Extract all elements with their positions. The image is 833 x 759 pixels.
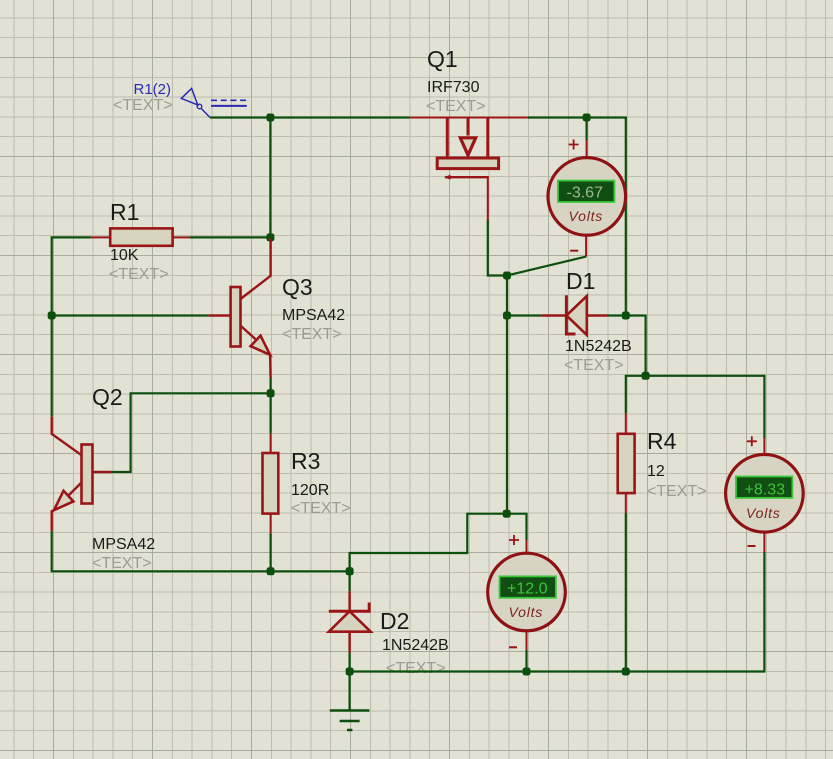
label Q1 xyxy=(427,46,458,72)
placeholder text probe xyxy=(113,97,173,114)
svg-text:+12.0: +12.0 xyxy=(507,581,548,598)
resistor R3 xyxy=(263,434,279,534)
svg-text:<TEXT>: <TEXT> xyxy=(109,266,169,283)
wire: R4 bottom to bottom rail xyxy=(625,513,627,672)
transistor Q2 (MPSA42 NPN, mirrored) xyxy=(52,417,111,531)
wire: D1 right connection xyxy=(608,314,626,316)
wire: D1 left connection xyxy=(507,314,541,316)
resistor R1 xyxy=(91,228,189,245)
voltmeter V2 (+12.0) xyxy=(488,535,566,650)
node A: top wire / vertical junction xyxy=(266,114,274,122)
wire: R1 right wire xyxy=(189,236,270,238)
svg-text:<TEXT>: <TEXT> xyxy=(92,555,152,572)
ground xyxy=(330,711,370,731)
svg-text:<TEXT>: <TEXT> xyxy=(282,326,342,343)
svg-text:MPSA42: MPSA42 xyxy=(282,307,345,324)
wire: Q2 emitter green part xyxy=(51,531,53,571)
wire: R3 top green part xyxy=(270,393,272,433)
wire: bottom rail xyxy=(350,670,766,672)
value MPSA42 Q2 xyxy=(92,536,155,553)
transistor Q1 (IRF730 MOSFET) xyxy=(410,118,528,221)
wire: R1 left wire and left rail xyxy=(52,237,91,416)
wire: R4 top connection xyxy=(625,375,627,413)
placeholder text Q3 xyxy=(282,326,342,343)
svg-text:<TEXT>: <TEXT> xyxy=(426,98,486,115)
label D1 xyxy=(566,268,595,294)
wire: V1 plus stub from top wire xyxy=(585,118,587,141)
node E: Q1 source / diagonal junction xyxy=(503,272,511,280)
placeholder text R4 xyxy=(647,483,707,500)
svg-text:D2: D2 xyxy=(380,608,409,634)
svg-text:1N5242B: 1N5242B xyxy=(565,338,632,355)
placeholder text D2 xyxy=(386,660,446,677)
wire: top net from probe to top-right corner xyxy=(210,116,627,118)
probe R1(2) xyxy=(181,88,246,117)
wire: ground stem xyxy=(349,672,351,710)
label Q2 xyxy=(92,384,123,410)
svg-text:Q3: Q3 xyxy=(282,274,313,300)
svg-text:<TEXT>: <TEXT> xyxy=(291,500,351,517)
diode D1 (1N5242B zener) xyxy=(541,295,608,335)
value 1N5242B D2 xyxy=(382,637,449,654)
svg-text:R3: R3 xyxy=(291,448,320,474)
svg-text:Volts: Volts xyxy=(569,208,604,224)
label R1(2) xyxy=(134,81,172,98)
wire: Q1 source vertical green part and corner to junction xyxy=(488,220,507,276)
wire: Q3 base net xyxy=(52,314,209,316)
node C: R1 right junction xyxy=(266,233,274,241)
value IRF730 xyxy=(427,79,480,96)
wire: D2 top green part xyxy=(349,571,351,591)
svg-text:R1: R1 xyxy=(110,199,139,225)
value 10K xyxy=(110,247,139,264)
wire: Q2 base net jog xyxy=(111,393,271,472)
node B: top wire / V1 plus junction xyxy=(583,114,591,122)
wire: middle vertical net x=507 xyxy=(506,276,508,514)
svg-text:MPSA42: MPSA42 xyxy=(92,536,155,553)
wire: horizontal rail to voltmeter V3 xyxy=(626,375,765,377)
wire: jog from D1 junction right and down xyxy=(626,316,646,376)
node H: rail junction above R4 xyxy=(642,372,650,380)
svg-text:Volts: Volts xyxy=(746,505,781,521)
wire: diagonal to V1 minus xyxy=(507,257,586,276)
svg-text:+8.33: +8.33 xyxy=(745,482,786,499)
placeholder text Q1 xyxy=(426,98,486,115)
node K: D2 top junction xyxy=(346,567,354,575)
voltmeter V1 (-3.67) xyxy=(548,140,626,257)
value 1N5242B D1 xyxy=(565,338,632,355)
placeholder text R1 xyxy=(109,266,169,283)
svg-text:IRF730: IRF730 xyxy=(427,79,480,96)
wire: D2 bottom green part xyxy=(349,653,351,672)
svg-text:Q1: Q1 xyxy=(427,46,458,72)
wire: right vertical down to D1 junction xyxy=(625,117,627,316)
wire: V2 minus lead green part xyxy=(525,650,527,672)
transistor Q3 (MPSA42 NPN) xyxy=(208,238,270,378)
node N: V2 minus junction xyxy=(523,668,531,676)
svg-text:12: 12 xyxy=(647,463,665,480)
node J: V2 plus junction xyxy=(503,510,511,518)
wire: Q3 emitter to junction green part xyxy=(270,377,272,394)
wire: bottom-left rail xyxy=(51,570,350,572)
svg-text:1N5242B: 1N5242B xyxy=(382,637,449,654)
placeholder text D1 xyxy=(564,357,624,374)
label D2 xyxy=(380,608,409,634)
svg-text:<TEXT>: <TEXT> xyxy=(647,483,707,500)
svg-text:Q2: Q2 xyxy=(92,384,123,410)
label R4 xyxy=(647,428,677,454)
node G: D1 right junction xyxy=(622,312,630,320)
node L: R3 bottom junction xyxy=(267,567,275,575)
svg-text:<TEXT>: <TEXT> xyxy=(113,97,173,114)
svg-text:<TEXT>: <TEXT> xyxy=(564,357,624,374)
svg-text:D1: D1 xyxy=(566,268,595,294)
placeholder text R3 xyxy=(291,500,351,517)
label R1 xyxy=(110,199,139,225)
svg-text:R1(2): R1(2) xyxy=(134,81,172,98)
svg-text:-3.67: -3.67 xyxy=(567,185,604,202)
svg-text:R4: R4 xyxy=(647,428,677,454)
wire: top vertical into R1 junction xyxy=(269,118,271,239)
node O: R4 bottom junction xyxy=(622,668,630,676)
wire: V3 plus lead (green part) xyxy=(763,375,765,438)
placeholder text Q2 xyxy=(92,555,152,572)
diode D2 (1N5242B zener) xyxy=(329,591,371,652)
node F: D1 left junction xyxy=(503,312,511,320)
node I: Q3 emitter junction xyxy=(267,389,275,397)
node D: left rail / base wire junction xyxy=(48,312,56,320)
value 12 xyxy=(647,463,665,480)
node M: D2 bottom junction xyxy=(346,668,354,676)
svg-text:<TEXT>: <TEXT> xyxy=(386,660,446,677)
wire: R3 bottom green part xyxy=(270,533,272,571)
label R3 xyxy=(291,448,320,474)
svg-text:Volts: Volts xyxy=(509,604,544,620)
svg-text:120R: 120R xyxy=(291,482,329,499)
resistor R4 xyxy=(618,413,635,513)
voltmeter V3 (+8.33) xyxy=(726,436,804,552)
value 120R xyxy=(291,482,329,499)
svg-text:10K: 10K xyxy=(110,247,139,264)
wire: V3 minus lead down to bottom rail xyxy=(763,552,765,672)
wire: jog from D2 node up to V2 plus xyxy=(350,514,527,572)
value MPSA42 Q3 xyxy=(282,307,345,324)
label Q3 xyxy=(282,274,313,300)
